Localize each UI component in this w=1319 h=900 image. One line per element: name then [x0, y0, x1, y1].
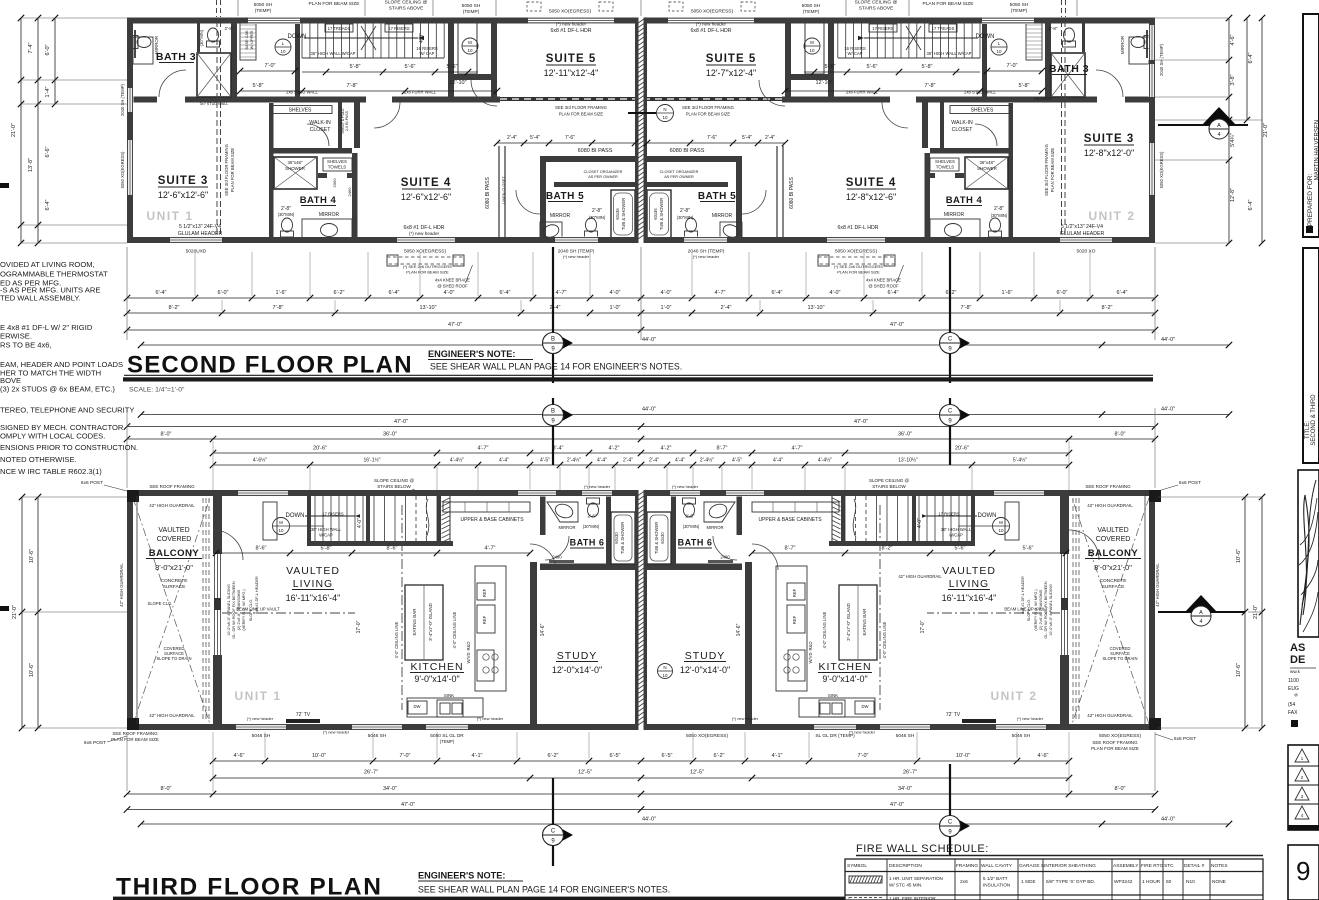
svg-text:2060: 2060 [332, 178, 337, 188]
svg-text:2'-4": 2'-4" [765, 135, 775, 141]
svg-text:OMPLY WITH LOCAL CODES.: OMPLY WITH LOCAL CODES. [0, 432, 105, 441]
plan2 unit1 bath3 fixtures [197, 53, 231, 97]
svg-text:SHELVES: SHELVES [289, 108, 312, 114]
svg-text:2'-4": 2'-4" [649, 458, 659, 464]
section marker B/9 left below plan2 [552, 247, 554, 383]
plan2 party wall [635, 18, 647, 244]
dim row 1 below plan2 [127, 297, 1155, 299]
svg-text:6'-4": 6'-4" [45, 199, 51, 210]
svg-text:SUITE 5: SUITE 5 [546, 53, 596, 65]
svg-text:WALK-IN: WALK-IN [309, 120, 331, 126]
svg-text:COVERED: COVERED [1096, 536, 1131, 543]
svg-text:(*) new header: (*) new header [732, 716, 759, 721]
svg-text:12'-5": 12'-5" [690, 770, 704, 776]
svg-text:6'-5": 6'-5" [610, 753, 621, 759]
svg-text:INTERIOR SHEATHING: INTERIOR SHEATHING [1044, 863, 1096, 869]
svg-text:10'-6": 10'-6" [29, 663, 35, 677]
svg-text:72' TV: 72' TV [946, 712, 961, 718]
svg-text:2'-6": 2'-6" [685, 514, 695, 519]
svg-text:2'-4": 2'-4" [721, 305, 732, 311]
extension stubs below plan2 [126, 247, 128, 340]
svg-text:12'-6"x12'-6": 12'-6"x12'-6" [158, 190, 208, 200]
svg-text:AS PER OWNER: AS PER OWNER [664, 175, 694, 179]
svg-text:6x8 #1 DF-L HDR: 6x8 #1 DF-L HDR [550, 28, 591, 34]
svg-text:M: M [279, 520, 283, 525]
svg-text:PLAN FOR BEAM SIZE: PLAN FOR BEAM SIZE [111, 737, 159, 742]
svg-text:MIRROR: MIRROR [1120, 35, 1125, 54]
svg-text:A: A [1199, 610, 1203, 616]
svg-text:(*) new header: (*) new header [696, 22, 727, 27]
svg-text:8'-7": 8'-7" [717, 446, 728, 452]
svg-text:DOWN: DOWN [976, 34, 995, 40]
svg-text:B: B [551, 409, 555, 415]
svg-text:4'-0": 4'-0" [661, 290, 672, 296]
left dim chain plan2 [0, 15, 1269, 731]
plan3 unit1 balcony slider [214, 554, 216, 655]
svg-text:SHELVES: SHELVES [971, 108, 994, 114]
svg-text:(*) new header: (*) new header [556, 22, 587, 27]
svg-text:4'-1": 4'-1" [772, 753, 783, 759]
svg-text:36'-0": 36'-0" [383, 432, 397, 438]
svg-text:9: 9 [1296, 856, 1310, 886]
svg-text:M: M [999, 520, 1003, 525]
svg-text:TOWELS: TOWELS [936, 165, 955, 170]
svg-text:50: 50 [1166, 879, 1172, 885]
svg-text:1'-4": 1'-4" [45, 86, 51, 97]
svg-text:PLAN FOR BEAM SIZE: PLAN FOR BEAM SIZE [230, 148, 235, 193]
svg-text:4'-0": 4'-0" [917, 518, 923, 528]
svg-text:PLAN FOR BEAM SIZE: PLAN FOR BEAM SIZE [309, 1, 360, 7]
svg-text:TEREO, TELEPHONE AND SECURITY: TEREO, TELEPHONE AND SECURITY [0, 406, 134, 415]
svg-text:VAULTED: VAULTED [158, 527, 189, 534]
svg-text:10'-0": 10'-0" [312, 753, 326, 759]
svg-text:SEE 3rd FLOOR FRAMING: SEE 3rd FLOOR FRAMING [555, 105, 607, 110]
svg-text:4'-0": 4'-0" [357, 518, 363, 528]
right dim chain plan2 [1228, 18, 1230, 243]
plan3 unit2 island [839, 585, 877, 660]
svg-text:SEE 3rd FLOOR FRAMING: SEE 3rd FLOOR FRAMING [224, 144, 229, 196]
svg-text:W/CAP: W/CAP [319, 533, 333, 538]
fire wall schedule table frame [845, 859, 1263, 900]
svg-text:2'-4½": 2'-4½" [567, 457, 581, 464]
svg-text:SHOWER: SHOWER [285, 166, 305, 171]
svg-text:47'-0": 47'-0" [448, 322, 462, 328]
title block box1 prepared-for [1303, 14, 1319, 237]
plan3 unit1 stair walls [307, 541, 453, 546]
svg-text:(TEMP): (TEMP) [1011, 8, 1028, 14]
svg-text:(*) new header: (*) new header [323, 730, 350, 735]
plan3 unit1 stairs [314, 496, 316, 541]
svg-text:5'-4": 5'-4" [742, 135, 752, 141]
svg-text:SLOPE CLG.: SLOPE CLG. [148, 601, 173, 606]
plan3 unit1 stair hatch band [442, 498, 450, 502]
svg-text:SUITE 3: SUITE 3 [1084, 133, 1134, 145]
plan2 unit2 stairs [979, 21, 981, 58]
svg-text:W/ CAP: W/ CAP [848, 51, 863, 56]
svg-text:A: A [1217, 123, 1221, 129]
svg-text:C: C [948, 337, 953, 343]
svg-text:3'-8": 3'-8" [1230, 74, 1236, 85]
svg-text:WALK-IN: WALK-IN [951, 120, 973, 126]
svg-text:CLOSET: CLOSET [310, 127, 332, 133]
svg-text:DOWN: DOWN [978, 513, 997, 519]
svg-text:9'-0"x14'-0": 9'-0"x14'-0" [414, 674, 459, 684]
svg-text:(TEMP): (TEMP) [463, 9, 480, 15]
svg-text:REF: REF [482, 588, 487, 597]
svg-text:LIVING: LIVING [949, 578, 989, 590]
dim row 5 below plan3 [141, 823, 1229, 825]
svg-text:FIRE WALL SCHEDULE:: FIRE WALL SCHEDULE: [856, 843, 989, 855]
svg-text:36" HIGH WALL W/CAP: 36" HIGH WALL W/CAP [311, 51, 356, 56]
svg-text:47'-0": 47'-0" [394, 419, 408, 425]
svg-text:47'-0": 47'-0" [401, 802, 415, 808]
svg-text:CLOSET ORGANIZER: CLOSET ORGANIZER [660, 170, 699, 174]
title block sheet number box [1288, 845, 1319, 900]
svg-text:36"x48": 36"x48" [979, 160, 995, 165]
svg-text:NOTES: NOTES [1211, 863, 1228, 869]
dim row 1 below plan3 [213, 760, 1069, 762]
svg-text:4'-6½": 4'-6½" [253, 457, 267, 464]
svg-text:TUB & SHOWER: TUB & SHOWER [659, 198, 664, 230]
svg-text:42" HIGH GUARDRAIL: 42" HIGH GUARDRAIL [149, 503, 195, 508]
svg-text:W/ CAP: W/ CAP [420, 51, 435, 56]
svg-text:6'-2": 6'-2" [548, 753, 559, 759]
center marker N/10 [657, 105, 674, 122]
svg-text:36" HIGH WALL W/CAP: 36" HIGH WALL W/CAP [927, 51, 972, 56]
svg-text:BATH 6: BATH 6 [570, 538, 605, 548]
svg-text:4'-6": 4'-6" [234, 753, 245, 759]
plan2 text labels [120, 22, 1136, 238]
svg-text:5'-4": 5'-4" [530, 135, 540, 141]
svg-text:(*) new header: (*) new header [563, 254, 590, 259]
svg-text:MARTIN HALVERSEN: MARTIN HALVERSEN [1315, 120, 1319, 180]
svg-text:(TEMP): (TEMP) [255, 8, 272, 14]
svg-text:W/ UPPER: W/ UPPER [250, 30, 254, 49]
svg-text:EATING BAR: EATING BAR [412, 608, 417, 636]
svg-text:5050 SH: 5050 SH [802, 3, 821, 9]
svg-text:36'-0": 36'-0" [898, 432, 912, 438]
plan3 unit1 kitchen walls [530, 562, 537, 724]
svg-text:SECOND FLOOR PLAN: SECOND FLOOR PLAN [127, 352, 413, 379]
svg-text:8'-2": 8'-2" [882, 546, 893, 552]
svg-text:CLOSET: CLOSET [952, 127, 974, 133]
svg-text:1'-0": 1'-0" [661, 305, 672, 311]
dim row 4 below plan2 [141, 344, 1229, 346]
dim row B above plan3 [127, 426, 1155, 428]
svg-text:60x30: 60x30 [660, 532, 665, 544]
right dim chain plan3 [1244, 497, 1246, 728]
svg-text:10: 10 [280, 49, 286, 54]
svg-text:3'-4"x7'-0" ISLAND: 3'-4"x7'-0" ISLAND [846, 602, 851, 640]
svg-text:W/ STC 45 MIN.: W/ STC 45 MIN. [889, 883, 922, 888]
dim row A above plan3 [141, 414, 1229, 416]
plan2 windows left wall [127, 88, 134, 112]
svg-text:BATH 4: BATH 4 [300, 195, 337, 206]
extension stubs below plan3 [264, 732, 266, 758]
svg-text:SLOPE CLG.: SLOPE CLG. [249, 599, 253, 622]
svg-text:5050 XO(EGRESS): 5050 XO(EGRESS) [686, 733, 729, 739]
svg-text:8'-2": 8'-2" [1102, 305, 1113, 311]
svg-text:2'-4": 2'-4" [507, 135, 517, 141]
svg-text:SINK: SINK [444, 693, 454, 698]
svg-text:36" HIGH WALL: 36" HIGH WALL [311, 527, 342, 532]
plan2 unit2 bath3 fixtures [1051, 53, 1085, 97]
svg-text:26'-7": 26'-7" [364, 770, 378, 776]
svg-text:17 TREADS: 17 TREADS [932, 26, 955, 31]
svg-text:1'-0": 1'-0" [610, 305, 621, 311]
plan2 unit2 interior walls [1045, 21, 1051, 97]
svg-text:THIRD FLOOR PLAN: THIRD FLOOR PLAN [116, 874, 383, 900]
svg-text:4'-2": 4'-2" [661, 446, 672, 452]
svg-text:7'-8": 7'-8" [347, 83, 358, 89]
svg-text:UNIT 1: UNIT 1 [234, 689, 281, 703]
svg-text:STAIRS ABOVE: STAIRS ABOVE [859, 6, 894, 12]
plan2 unit1 bath5 fixtures [611, 190, 635, 238]
dimension band below third floor plan [84, 731, 1232, 866]
svg-text:STC: STC [1164, 863, 1174, 869]
svg-text:MIRROR: MIRROR [550, 213, 571, 219]
svg-text:21'-0": 21'-0" [12, 605, 18, 619]
svg-text:10: 10 [467, 48, 473, 53]
svg-text:TUB & SHOWER: TUB & SHOWER [654, 522, 659, 554]
svg-text:SUITE 4: SUITE 4 [846, 177, 896, 189]
svg-text:5'-8": 5'-8" [253, 83, 264, 89]
svg-text:(30"MIN): (30"MIN) [991, 213, 1008, 218]
svg-text:5046 SH: 5046 SH [1012, 733, 1031, 739]
svg-text:NCE W IRC TABLE R602.3(1): NCE W IRC TABLE R602.3(1) [0, 467, 102, 476]
svg-text:5046 SH: 5046 SH [368, 733, 387, 739]
left chain connectors plan2 [21, 17, 127, 19]
svg-text:TED WALL ASSEMBLY.: TED WALL ASSEMBLY. [0, 294, 81, 303]
plan3 corner posts [127, 490, 139, 502]
svg-text:(2) 2'x6'-8" TRANSOMS: (2) 2'x6'-8" TRANSOMS [1039, 589, 1043, 630]
svg-text:W/VD: W/VD [466, 653, 471, 664]
svg-text:ASSEMBLY: ASSEMBLY [1113, 863, 1139, 869]
svg-text:1'-6": 1'-6" [276, 290, 287, 296]
svg-text:GL. DR W/ ROOF FIX BETWEEN: GL. DR W/ ROOF FIX BETWEEN [1044, 581, 1048, 638]
svg-text:SLOPE TO DRAIN: SLOPE TO DRAIN [1103, 656, 1138, 661]
svg-text:MIRROR: MIRROR [944, 212, 965, 218]
svg-text:5 1/2"x13" 24F-V4: 5 1/2"x13" 24F-V4 [1061, 224, 1103, 230]
svg-text:6'-4": 6'-4" [156, 290, 167, 296]
plan2 unit2 bath4 fixtures [965, 157, 1008, 189]
svg-text:(*) new header: (*) new header [409, 231, 440, 236]
svg-text:BALCONY: BALCONY [149, 548, 200, 559]
svg-text:8'-6": 8'-6" [256, 546, 267, 552]
svg-text:SLOPE TO DRAIN: SLOPE TO DRAIN [157, 656, 192, 661]
svg-text:5050 XO(EGRESS): 5050 XO(EGRESS) [549, 9, 592, 15]
svg-text:STAIRS BELOW: STAIRS BELOW [377, 484, 411, 489]
svg-text:4'-0" CEILING LINE: 4'-0" CEILING LINE [822, 611, 827, 648]
section markers above plan3 [552, 398, 554, 465]
svg-text:2460: 2460 [347, 187, 352, 197]
svg-text:6'-2": 6'-2" [714, 753, 725, 759]
svg-text:REF: REF [792, 615, 797, 624]
svg-text:PLAN FOR BEAM SIZE: PLAN FOR BEAM SIZE [1091, 746, 1139, 751]
svg-text:5050 SH: 5050 SH [462, 3, 481, 9]
svg-text:4'-2": 4'-2" [609, 446, 620, 452]
svg-text:LINEN CLOSET: LINEN CLOSET [502, 176, 506, 204]
svg-text:SEE SHEAR WALL PLAN PAGE 14 FO: SEE SHEAR WALL PLAN PAGE 14 FOR ENGINEER… [430, 362, 682, 372]
svg-text:4'-6": 4'-6" [1230, 34, 1236, 45]
svg-text:7'-4": 7'-4" [28, 42, 34, 53]
svg-text:4'-7": 4'-7" [556, 290, 567, 296]
plan2 unit1 chase hatch [458, 21, 477, 74]
svg-text:6x8 #1 DF-L HEADER: 6x8 #1 DF-L HEADER [1021, 576, 1025, 614]
svg-text:W/VD: W/VD [808, 653, 813, 664]
svg-text:44'-0": 44'-0" [642, 337, 656, 343]
svg-text:NOTED OTHERWISE.: NOTED OTHERWISE. [0, 455, 77, 464]
svg-text:5046 SH: 5046 SH [896, 733, 915, 739]
svg-text:10: 10 [996, 49, 1002, 54]
svg-text:16'-1½": 16'-1½" [364, 457, 381, 464]
svg-text:BALCONY: BALCONY [1088, 548, 1139, 559]
svg-text:26'-7": 26'-7" [903, 770, 917, 776]
svg-text:4x4 KNEE BRACE: 4x4 KNEE BRACE [435, 278, 470, 283]
svg-text:13'-10": 13'-10" [807, 305, 824, 311]
svg-text:LIVING: LIVING [293, 578, 333, 590]
svg-text:60x30: 60x30 [614, 532, 619, 544]
dim row D above plan3 [213, 452, 1069, 454]
svg-text:C: C [948, 820, 953, 826]
svg-text:47'-0": 47'-0" [890, 322, 904, 328]
svg-text:MIRROR: MIRROR [712, 213, 733, 219]
svg-text:72' TV: 72' TV [296, 712, 311, 718]
svg-text:GARAGE S.: GARAGE S. [1019, 863, 1045, 869]
svg-text:4'-0": 4'-0" [419, 33, 425, 43]
svg-text:6080 BI PASS: 6080 BI PASS [485, 177, 491, 209]
svg-text:10'-0"x8'-0" 4-PANEL SLIDING: 10'-0"x8'-0" 4-PANEL SLIDING [227, 584, 231, 636]
svg-text:8'-7": 8'-7" [785, 546, 796, 552]
svg-text:REF: REF [792, 588, 797, 597]
svg-text:10'-0": 10'-0" [956, 753, 970, 759]
svg-text:4'-7": 4'-7" [485, 546, 496, 552]
svg-text:8'-0": 8'-0" [1115, 432, 1126, 438]
svg-text:12'-10": 12'-10" [815, 80, 832, 86]
svg-text:SHELF & POLE: SHELF & POLE [341, 108, 345, 134]
svg-text:BATH 3: BATH 3 [156, 51, 196, 63]
title block box2 title [1303, 248, 1319, 463]
svg-text:4'-0" CEILING LINE: 4'-0" CEILING LINE [394, 621, 399, 658]
svg-text:MIRROR: MIRROR [559, 525, 576, 530]
knee brace details below plan2 [387, 257, 464, 264]
svg-text:4'-0": 4'-0" [830, 290, 841, 296]
svg-text:44'-0": 44'-0" [1161, 817, 1175, 823]
plan2 unit1 interior walls [231, 21, 237, 97]
svg-text:1 HR. UNIT SEPARATION: 1 HR. UNIT SEPARATION [889, 876, 943, 881]
svg-text:12'-10": 12'-10" [449, 80, 466, 86]
left edge tick plan3 [0, 606, 9, 611]
svg-text:6'-4": 6'-4" [389, 290, 400, 296]
svg-text:2460: 2460 [552, 555, 562, 560]
right elevation marker plan2 [1158, 124, 1248, 126]
svg-text:2'-6": 2'-6" [587, 514, 597, 519]
second floor plan titles [123, 349, 1153, 394]
svg-text:6'-4": 6'-4" [500, 290, 511, 296]
plan3 unit1 stairwell left wall [307, 496, 311, 541]
svg-text:6080 BI PASS: 6080 BI PASS [789, 177, 795, 209]
svg-text:8'-6": 8'-6" [387, 546, 398, 552]
svg-text:ww.k: ww.k [1290, 669, 1301, 674]
svg-text:42" HIGH GUARDRAIL: 42" HIGH GUARDRAIL [1087, 713, 1133, 718]
svg-text:2040 SH (TEMP): 2040 SH (TEMP) [1159, 43, 1164, 75]
svg-text:STAIRS ABOVE: STAIRS ABOVE [389, 6, 424, 12]
svg-text:REF: REF [482, 615, 487, 624]
svg-text:SL GL DR (TEMP): SL GL DR (TEMP) [815, 733, 855, 739]
plan3 unit1 kitchen counters [443, 502, 530, 512]
svg-text:7'-0": 7'-0" [858, 753, 869, 759]
svg-text:3'-4"x7'-0" ISLAND: 3'-4"x7'-0" ISLAND [428, 602, 433, 640]
svg-text:7'-8": 7'-8" [273, 305, 284, 311]
svg-text:42" HIGH GUARDRAIL: 42" HIGH GUARDRAIL [1087, 503, 1133, 508]
svg-text:6x8 #1 DF-L HEADER: 6x8 #1 DF-L HEADER [255, 576, 259, 614]
svg-text:10: 10 [809, 48, 815, 53]
svg-text:4'-4½": 4'-4½" [450, 457, 464, 464]
svg-text:42" HIGH GUARDRAIL: 42" HIGH GUARDRAIL [1155, 563, 1160, 607]
dim row 2 below plan2 [127, 312, 1155, 314]
svg-text:FRAMING: FRAMING [956, 863, 978, 869]
dim row 2 below plan3 [213, 777, 1069, 779]
svg-text:36"x48": 36"x48" [287, 160, 303, 165]
plan3 unit2 kitchen counters [752, 502, 839, 512]
svg-text:13'-10": 13'-10" [419, 305, 436, 311]
plan3 unit2 stairwell left wall [971, 496, 975, 541]
svg-text:VAULTED: VAULTED [286, 565, 340, 577]
svg-text:6x6 POST: 6x6 POST [84, 740, 106, 746]
top edge knee dash boxes [527, 2, 541, 11]
svg-text:(2) 2'x6'-8" TRANSOMS: (2) 2'x6'-8" TRANSOMS [237, 589, 241, 630]
svg-text:SHOWER: SHOWER [977, 166, 997, 171]
svg-text:6'-4": 6'-4" [888, 290, 899, 296]
svg-text:4'-0": 4'-0" [610, 290, 621, 296]
svg-text:6x6 POST: 6x6 POST [1174, 736, 1196, 742]
svg-text:6'-2": 6'-2" [334, 290, 345, 296]
svg-text:(TEMP): (TEMP) [803, 9, 820, 15]
svg-text:UNIT 2: UNIT 2 [990, 689, 1037, 703]
svg-text:4'-4½": 4'-4½" [818, 457, 832, 464]
svg-text:12'-8"x12'-0": 12'-8"x12'-0" [1084, 148, 1134, 158]
svg-text:(*) SEE 2x6 OUTRIGGERS: (*) SEE 2x6 OUTRIGGERS [834, 264, 883, 269]
svg-text:PLAN FOR BEAM SIZE: PLAN FOR BEAM SIZE [406, 270, 449, 275]
svg-text:20'-6": 20'-6" [955, 446, 969, 452]
plan3 unit1 balcony diagonals [133, 498, 210, 724]
svg-text:SHELVES: SHELVES [935, 159, 955, 164]
svg-text:DOWN: DOWN [286, 513, 305, 519]
svg-text:DW: DW [414, 704, 421, 709]
svg-text:7'-0": 7'-0" [265, 63, 276, 69]
svg-text:SUITE 5: SUITE 5 [706, 53, 756, 65]
svg-text:R&O: R&O [466, 641, 471, 651]
svg-text:KITCHEN: KITCHEN [410, 661, 463, 673]
plan3 text labels [119, 503, 1160, 735]
svg-text:2460: 2460 [720, 555, 730, 560]
svg-text:5'-6": 5'-6" [955, 546, 966, 552]
dim row 3 below plan2 [127, 329, 1155, 331]
svg-text:1'-6": 1'-6" [1002, 290, 1013, 296]
svg-text:4'-7": 4'-7" [792, 446, 803, 452]
svg-text:5050 SH: 5050 SH [254, 2, 273, 8]
svg-text:4'-4": 4'-4" [773, 458, 783, 464]
svg-text:WALL CAVITY: WALL CAVITY [981, 863, 1013, 869]
svg-text:W/CAP: W/CAP [949, 533, 963, 538]
svg-text:UPPER & BASE CABINETS: UPPER & BASE CABINETS [460, 517, 524, 523]
svg-text:44'-0": 44'-0" [642, 817, 656, 823]
svg-text:6'-0": 6'-0" [45, 44, 51, 55]
svg-text:42" HIGH GUARDRAIL: 42" HIGH GUARDRAIL [119, 563, 124, 607]
svg-text:SEE ROOF FRAMING: SEE ROOF FRAMING [1092, 740, 1138, 745]
dimension band above third floor plan [81, 398, 1232, 496]
svg-text:5050 XO(EGRESS): 5050 XO(EGRESS) [1159, 151, 1164, 188]
